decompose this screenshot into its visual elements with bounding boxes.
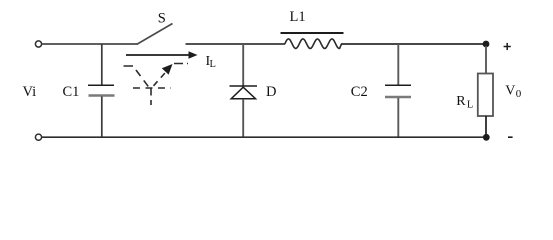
wire bottom — [42, 136, 484, 138]
emitter top dash — [174, 63, 188, 65]
current arrow IL — [126, 51, 198, 59]
label C1 — [63, 84, 80, 100]
label D — [266, 84, 276, 100]
diode D — [230, 44, 258, 137]
base bar dashed — [133, 87, 171, 89]
node dot top-right (+ terminal) — [483, 41, 490, 48]
wire top segment right (switch to +node) — [186, 43, 484, 45]
label C2 — [351, 84, 368, 100]
inductor L1 — [281, 33, 344, 49]
label Vi — [23, 84, 37, 100]
svg-text:S: S — [158, 11, 166, 27]
terminal top-left input — [35, 41, 41, 47]
switch S — [137, 24, 173, 45]
emitter lead with arrow dashed — [154, 70, 168, 86]
svg-text:C2: C2 — [351, 84, 368, 100]
svg-text:L: L — [467, 99, 473, 110]
svg-text:L: L — [210, 59, 216, 70]
terminal bottom-left input — [35, 134, 41, 140]
svg-text:D: D — [266, 84, 276, 100]
collector lead dashed — [124, 66, 150, 88]
transistor Q dashed (switch implementation) — [124, 64, 189, 106]
label minus — [508, 136, 513, 138]
base lead down dashed — [150, 89, 152, 106]
svg-text:V: V — [505, 84, 515, 99]
capacitor C2 — [385, 44, 411, 137]
svg-text:C1: C1 — [63, 84, 80, 100]
label plus — [504, 43, 511, 50]
label IL — [206, 54, 216, 70]
resistor RL — [478, 46, 493, 135]
wire top segment left (input to switch) — [42, 43, 137, 45]
label V0 — [505, 84, 522, 101]
svg-text:R: R — [456, 94, 466, 109]
label L1 — [290, 9, 306, 25]
svg-text:L1: L1 — [290, 9, 306, 25]
label S — [158, 11, 166, 27]
svg-text:0: 0 — [516, 88, 522, 100]
capacitor C1 — [88, 44, 115, 137]
svg-text:Vi: Vi — [23, 84, 37, 100]
label RL — [456, 94, 473, 110]
node dot bottom-right (- terminal) — [483, 134, 490, 141]
